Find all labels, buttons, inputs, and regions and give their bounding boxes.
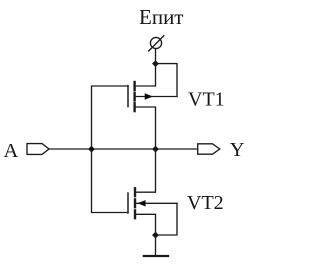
transistor VT1 (p-channel MOSFET) gate electrode bbox=[127, 86, 129, 107]
wire to ground bbox=[155, 235, 157, 255]
transistor VT2 (n-channel MOSFET) gate electrode bbox=[127, 193, 129, 213]
svg-text:VT1: VT1 bbox=[188, 88, 225, 110]
svg-text:Епит: Епит bbox=[139, 5, 183, 29]
ground bbox=[144, 255, 168, 257]
wire left gate bus bbox=[92, 86, 129, 213]
node: output junction bbox=[153, 146, 159, 152]
VT2 substrate lead with arrow bbox=[135, 202, 177, 204]
svg-text:Y: Y bbox=[230, 139, 245, 161]
VT1 source lead bbox=[135, 64, 156, 86]
VT1 drain lead bbox=[135, 107, 156, 149]
VT2 drain lead bbox=[135, 149, 156, 192]
power terminal symbol (circle with slash) bbox=[150, 37, 161, 48]
transistor VT1 channel segments bbox=[133, 82, 135, 90]
input terminal arrow A bbox=[27, 144, 49, 155]
output terminal arrow Y bbox=[198, 144, 220, 154]
svg-text:A: A bbox=[4, 140, 19, 162]
VT2 source lead bbox=[135, 214, 156, 235]
wire top node to VT1 substrate rail bbox=[156, 64, 178, 97]
node: source/ground junction bbox=[153, 232, 159, 238]
svg-text:VT2: VT2 bbox=[187, 192, 224, 214]
wire input row bbox=[49, 148, 198, 150]
transistor VT2 channel segments bbox=[134, 188, 136, 196]
VT1 substrate lead with arrow bbox=[135, 96, 177, 98]
node: gate bus junction bbox=[89, 146, 95, 152]
wire power terminal to top node bbox=[155, 49, 157, 64]
node: top supply junction bbox=[153, 61, 159, 67]
